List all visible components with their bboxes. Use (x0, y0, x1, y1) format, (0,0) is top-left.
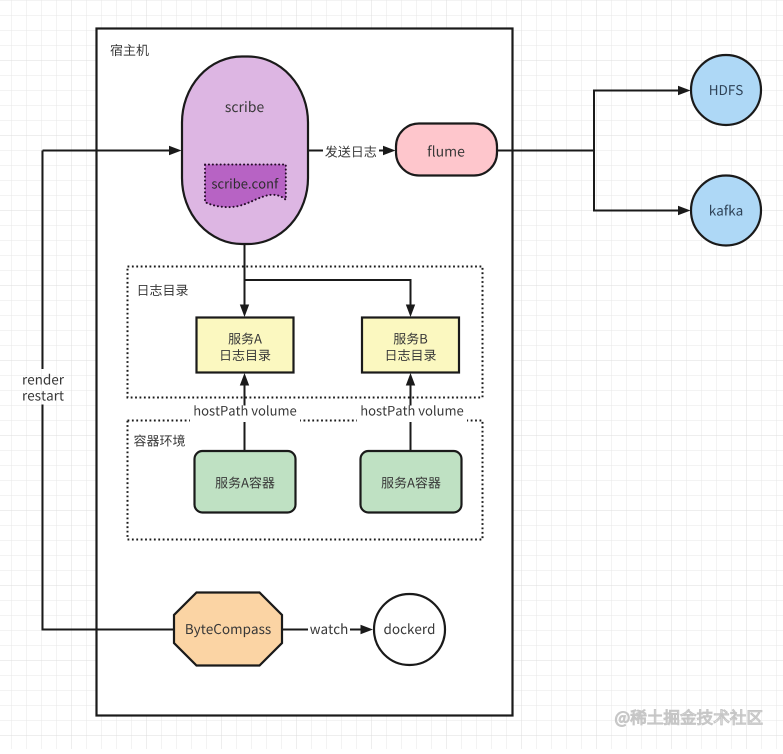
HDFS circle (691, 55, 761, 125)
label scribe (225, 101, 263, 112)
box 服务A容器 (right) (361, 451, 462, 513)
label 容器环境 (134, 435, 185, 447)
ByteCompass octagon (174, 593, 282, 666)
label ByteCompass (186, 624, 271, 637)
wire: branch to HDFS (593, 90, 678, 92)
wire: scribe down to log directories with branch (244, 244, 246, 306)
wire: render/restart feedback line down to ByteCompass (42, 151, 44, 370)
kafka circle (691, 176, 761, 246)
wire: container A up to log dir A (244, 385, 246, 451)
wire: ByteCompass to dockerd (watch) (282, 629, 308, 631)
label 发送日志 (325, 146, 376, 158)
wire: input arrow into scribe (43, 150, 170, 152)
wire: branch vertical (593, 91, 595, 211)
label hostPath volume (left) (190, 406, 300, 423)
label 宿主机 (110, 44, 148, 56)
dotted box 容器环境 (128, 421, 483, 540)
box 服务A 日志目录 (197, 318, 294, 373)
flume box (396, 124, 497, 176)
wire: branch to kafka (593, 210, 678, 212)
scribe blob (182, 57, 308, 245)
label scribe.conf (212, 178, 279, 189)
watermark 稀土掘金技术社区 (615, 709, 762, 726)
box 服务A容器 (left) (195, 451, 296, 513)
wire: container B up to log dir B (410, 385, 412, 451)
label flume (428, 145, 465, 157)
scribe.conf document shape (205, 165, 286, 208)
dockerd circle (374, 594, 445, 665)
label watch (310, 623, 347, 634)
label render restart (23, 374, 64, 385)
label 日志目录 (139, 284, 188, 296)
dotted box 日志目录 (128, 267, 483, 398)
label hostPath volume (right) (357, 406, 467, 423)
box 服务B 日志目录 (362, 318, 459, 373)
wire: flume out to branch point (497, 150, 594, 152)
wire: scribe to flume 发送日志 (308, 150, 323, 152)
host machine box 宿主机 (97, 29, 513, 716)
label dockerd (384, 623, 434, 634)
